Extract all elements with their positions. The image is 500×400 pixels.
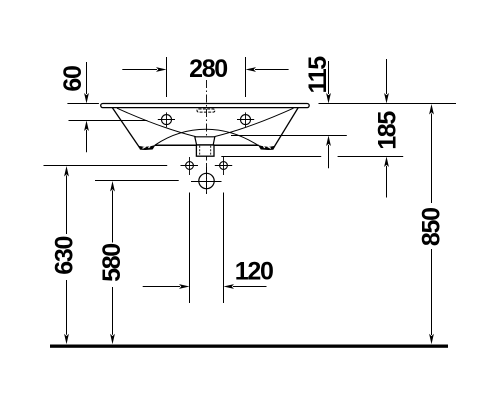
svg-text:185: 185	[373, 111, 401, 150]
svg-text:120: 120	[235, 257, 273, 285]
bowl inner curve right	[215, 108, 294, 136]
svg-text:115: 115	[304, 56, 332, 94]
basin left outer slope	[112, 108, 139, 148]
overflow slot (hidden, dashed)	[197, 109, 215, 112]
basin bottom edge	[155, 144, 259, 146]
wall mounting hole left	[181, 157, 199, 175]
dimension 60	[59, 62, 89, 152]
svg-text:580: 580	[98, 244, 126, 282]
svg-text:60: 60	[59, 66, 87, 92]
dimension 280	[122, 55, 288, 97]
extension line drain bottom (185)	[221, 156, 403, 158]
extension line bowl depth (115)	[231, 135, 347, 137]
dimension 580	[98, 181, 126, 344]
svg-text:850: 850	[418, 208, 446, 246]
floor line	[50, 345, 448, 348]
basin right outer slope	[274, 108, 298, 148]
extension line top-left (rim top level)	[67, 103, 99, 105]
extension line mounting holes (630)	[44, 165, 168, 167]
svg-text:630: 630	[50, 236, 78, 274]
centerline (dash-dot)	[206, 80, 208, 194]
extension line top-right (rim top level)	[319, 103, 457, 105]
dimension 630	[50, 166, 78, 344]
basin right foot	[259, 145, 275, 149]
dimension 185	[373, 59, 401, 198]
bowl inner curve left	[117, 108, 196, 136]
drain cup	[195, 137, 215, 145]
bowl bottom contour arc	[155, 129, 258, 145]
extension line faucet-hole level left	[69, 120, 148, 122]
svg-text:280: 280	[189, 55, 227, 83]
washbasin rim (top deck)	[101, 104, 310, 108]
dimension 120	[143, 193, 273, 304]
siphon outlet circle	[191, 165, 222, 195]
dimension 850	[418, 104, 446, 344]
extension line siphon (580)	[95, 180, 179, 182]
wall mounting hole right	[215, 157, 232, 175]
drain tailpiece	[196, 145, 214, 156]
dimension 115	[304, 56, 332, 169]
basin left foot	[139, 145, 155, 149]
left faucet hole	[158, 112, 175, 127]
right faucet hole	[237, 112, 254, 127]
